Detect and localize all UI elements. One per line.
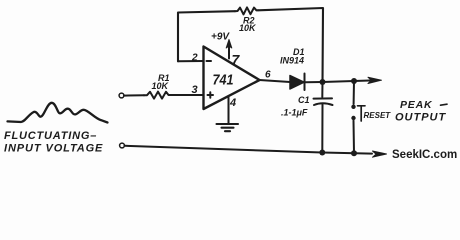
svg-text:FLUCTUATING–: FLUCTUATING– bbox=[4, 130, 97, 142]
svg-text:SeekIC.com: SeekIC.com bbox=[392, 149, 457, 161]
svg-text:OUTPUT: OUTPUT bbox=[395, 112, 447, 124]
wire feedback left vertical and top run to R2 bbox=[178, 11, 235, 61]
node junction dot (C1 to rail) bbox=[319, 150, 325, 156]
svg-text:7: 7 bbox=[232, 52, 241, 68]
svg-text:PEAK: PEAK bbox=[400, 99, 433, 111]
svg-text:3: 3 bbox=[192, 84, 198, 96]
label PEAK OUTPUT bbox=[395, 99, 447, 124]
wire op-amp pin 2 to feedback corner bbox=[178, 60, 204, 62]
node B junction dot bbox=[351, 78, 357, 84]
switch RESET (pushbutton) bbox=[351, 81, 391, 153]
svg-text:C1: C1 bbox=[298, 95, 310, 105]
wire bottom rail bbox=[125, 146, 387, 157]
svg-text:10K: 10K bbox=[152, 81, 170, 91]
svg-text:+9V: +9V bbox=[211, 32, 230, 43]
resistor R1 bbox=[144, 73, 170, 99]
resistor R2 bbox=[235, 7, 258, 33]
svg-text:.1-1μF: .1-1μF bbox=[281, 108, 308, 118]
capacitor C1 bbox=[281, 82, 333, 153]
wire output arrow to the right bbox=[354, 77, 382, 83]
wire diode to node A bbox=[305, 81, 323, 83]
svg-text:10K: 10K bbox=[239, 23, 257, 33]
power +9V arrow to pin 7 bbox=[211, 32, 232, 59]
input waveform squiggle bbox=[8, 103, 108, 123]
op-amp U1 741 bbox=[204, 47, 260, 110]
svg-text:741: 741 bbox=[213, 72, 234, 89]
svg-text:INPUT VOLTAGE: INPUT VOLTAGE bbox=[4, 143, 103, 155]
wire R2 to right corner, down to output node bbox=[258, 8, 323, 82]
wire input terminal to R1 bbox=[124, 94, 144, 96]
diode D1 IN914 bbox=[280, 47, 305, 90]
wire node A to node B bbox=[323, 81, 355, 82]
ground (op-amp V- pin 4) bbox=[217, 98, 239, 132]
wire op-amp output pin 6 to diode bbox=[260, 80, 291, 82]
input terminal (open circle, signal input) bbox=[119, 93, 124, 98]
node junction dot (RESET to rail) bbox=[351, 150, 357, 156]
svg-text:6: 6 bbox=[265, 70, 271, 81]
svg-text:IN914: IN914 bbox=[280, 56, 304, 66]
svg-text:4: 4 bbox=[229, 97, 236, 109]
wire R1 to op-amp pin 3 bbox=[170, 94, 203, 96]
bottom terminal (open circle, return) bbox=[120, 143, 125, 148]
svg-text:RESET: RESET bbox=[364, 111, 392, 120]
label FLUCTUATING INPUT VOLTAGE bbox=[4, 130, 103, 155]
node A junction dot bbox=[320, 79, 326, 85]
